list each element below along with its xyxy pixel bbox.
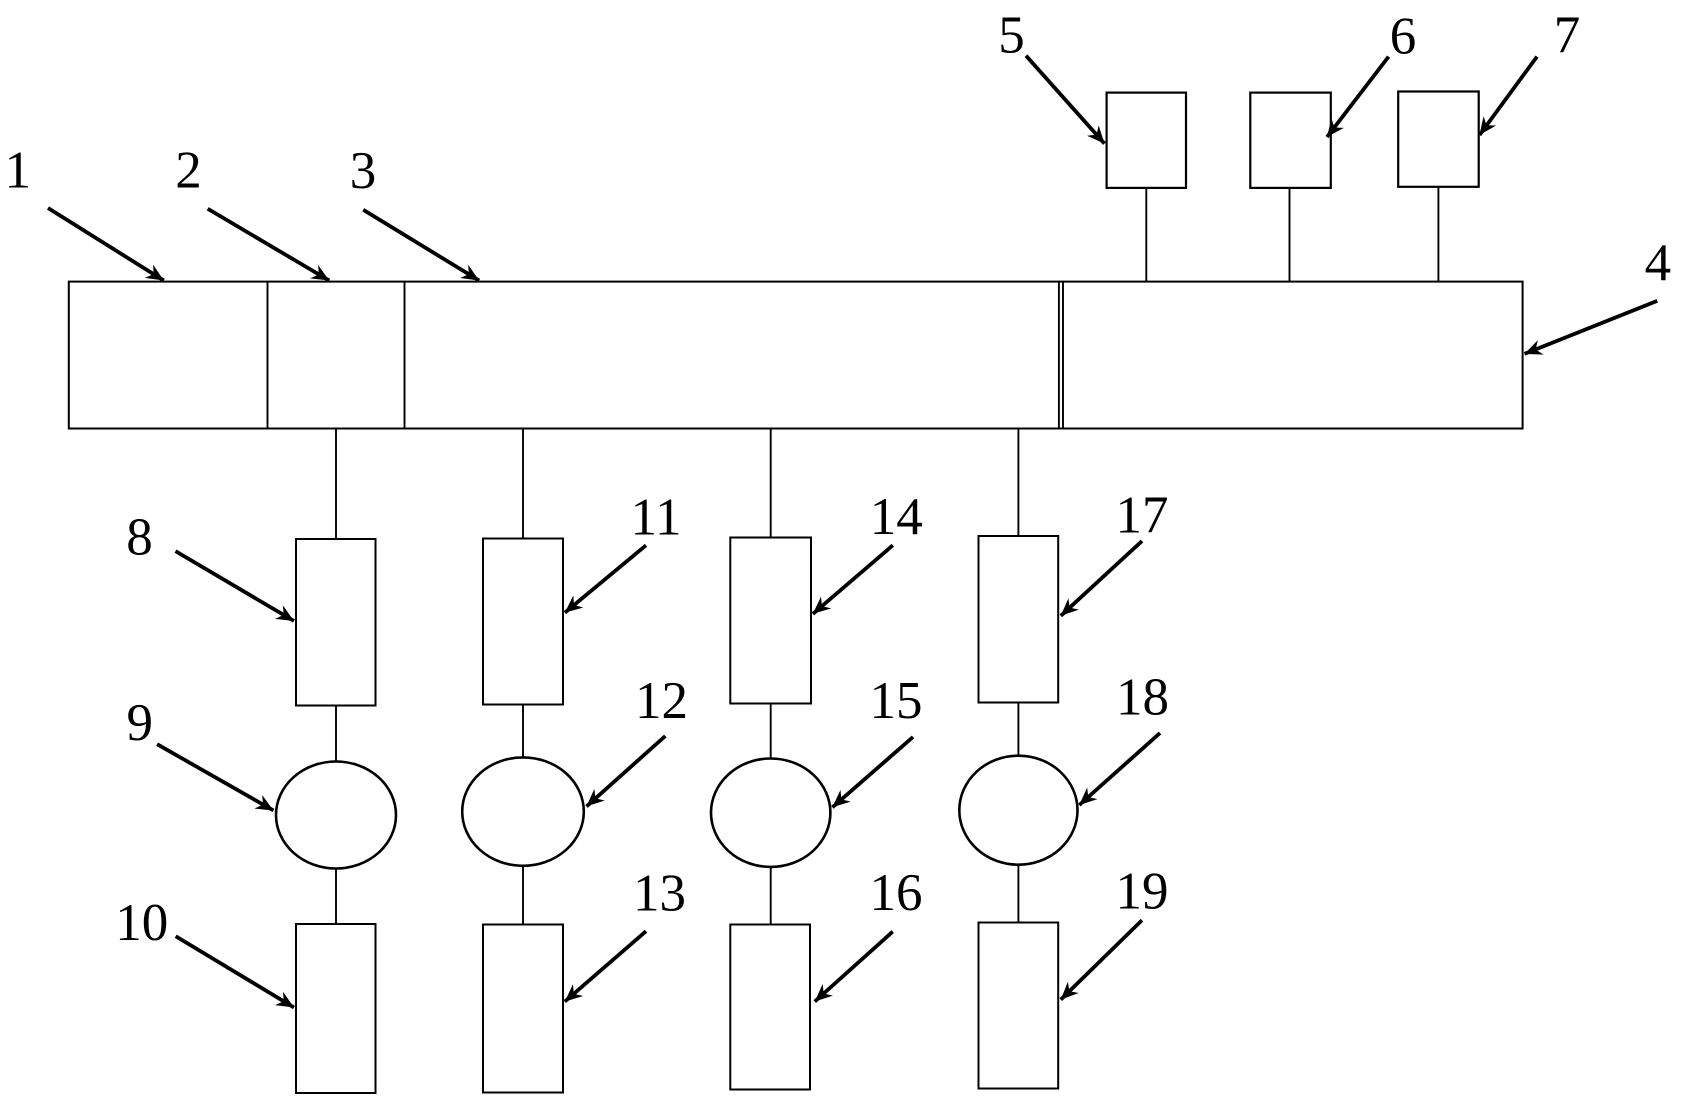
box 19 [979, 923, 1059, 1089]
leader arrow 2 [208, 209, 330, 281]
svg-text:13: 13 [633, 865, 686, 923]
leader arrow 10 [176, 936, 294, 1007]
box 7 [1398, 92, 1479, 187]
leader arrow 17 [1061, 541, 1142, 616]
box 17 [979, 536, 1059, 703]
circle 12 [462, 757, 584, 865]
leader arrow 15 [832, 737, 913, 807]
leader arrow 3 [363, 210, 479, 281]
box 13 [483, 925, 563, 1093]
circle 15 [711, 759, 830, 867]
svg-text:8: 8 [126, 509, 153, 567]
leader arrow 8 [176, 551, 295, 621]
leader arrow 5 [1026, 56, 1105, 144]
svg-text:18: 18 [1116, 669, 1169, 727]
wire box17 to circle 18 [1017, 703, 1019, 756]
double divider line right [1062, 282, 1064, 429]
svg-text:2: 2 [175, 142, 202, 200]
manifold body 4 (long rectangle) [69, 282, 1523, 429]
svg-text:7: 7 [1554, 7, 1581, 65]
wire manifold to box 17 [1017, 429, 1019, 537]
leader arrow 6 [1327, 57, 1389, 137]
svg-text:5: 5 [998, 7, 1025, 65]
leader arrow 11 [565, 545, 646, 612]
leader arrow 1 [48, 208, 164, 281]
leader arrow 7 [1480, 57, 1538, 135]
box 5 [1107, 93, 1186, 188]
leader arrow 19 [1061, 920, 1142, 999]
box 6 [1250, 93, 1331, 188]
leader arrow 13 [565, 931, 646, 1001]
svg-text:14: 14 [870, 488, 923, 546]
leader arrow 12 [587, 736, 666, 806]
wire circle15 to box 16 [770, 867, 772, 925]
svg-text:9: 9 [127, 694, 154, 752]
svg-text:1: 1 [4, 142, 31, 200]
svg-text:4: 4 [1645, 234, 1672, 292]
svg-text:17: 17 [1116, 487, 1169, 545]
double divider line left [1058, 282, 1060, 429]
svg-text:11: 11 [630, 489, 681, 547]
svg-text:19: 19 [1116, 863, 1169, 921]
leader arrow 18 [1079, 733, 1160, 805]
wire box8 to circle 9 [335, 706, 337, 763]
box 11 [483, 539, 563, 705]
leader arrow 14 [813, 545, 893, 614]
wire circle18 to box 19 [1017, 865, 1019, 923]
svg-text:12: 12 [635, 672, 688, 730]
svg-text:6: 6 [1390, 8, 1417, 66]
box 8 [296, 539, 376, 706]
leader arrow 9 [157, 744, 273, 810]
leader arrow 16 [815, 932, 893, 1002]
wire box6 to manifold [1289, 188, 1291, 282]
wire manifold to box 14 [770, 429, 772, 538]
section divider (between 1 and 2) [267, 282, 269, 429]
box 16 [730, 925, 810, 1090]
wire circle12 to box 13 [522, 866, 524, 925]
wire manifold to box 8 [335, 429, 337, 540]
box 10 [296, 924, 376, 1093]
wire box11 to circle 12 [522, 705, 524, 758]
wire manifold to box 11 [522, 429, 524, 539]
wire box7 to manifold [1437, 187, 1439, 282]
wire circle9 to box 10 [335, 869, 337, 925]
svg-text:15: 15 [870, 672, 923, 730]
circle 18 [959, 756, 1077, 865]
wire box5 to manifold [1145, 188, 1147, 282]
section divider (between 2 and 3) [404, 282, 406, 429]
leader arrow 4 [1525, 301, 1658, 354]
svg-text:3: 3 [350, 142, 377, 200]
svg-text:10: 10 [115, 894, 168, 952]
box 14 [730, 538, 811, 704]
circle 9 [276, 762, 396, 869]
svg-text:16: 16 [870, 864, 923, 922]
wire box14 to circle 15 [770, 704, 772, 759]
